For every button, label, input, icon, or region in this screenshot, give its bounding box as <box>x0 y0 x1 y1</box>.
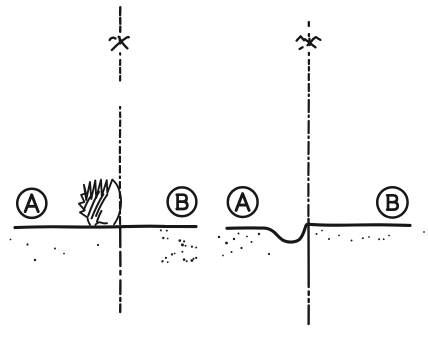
flame inner strokes <box>84 192 107 222</box>
centerline (left figure) below surface <box>119 227 122 312</box>
stipple dots below surface (right figure, left cluster) <box>218 233 270 257</box>
centerline (right figure) below surface <box>307 219 310 324</box>
beam cross marker (right figure) <box>297 36 321 49</box>
beam cross marker (left figure) <box>110 37 129 50</box>
label circle A (left figure) <box>17 189 46 218</box>
stipple dots below surface (left figure, sparse left side) <box>10 239 100 262</box>
centerline (right figure) dash-dot to surface <box>307 53 310 216</box>
stipple dots below surface (left figure, cluster right of centerline) <box>160 229 197 263</box>
centerline (left figure) dash-dot between marker and surface <box>119 53 121 224</box>
flame at beam spot (left figure) <box>79 180 121 225</box>
surface line (left figure) <box>15 226 196 227</box>
label circle B (right figure) <box>377 187 407 217</box>
label circle B (left figure) <box>168 187 197 216</box>
label circle A (right figure) <box>228 187 258 217</box>
centerline (right figure) top <box>308 22 310 36</box>
stipple dots below surface (right figure, right of centerline) <box>316 230 425 242</box>
centerline (left figure) top solid segment <box>119 7 122 32</box>
flame base squiggle <box>96 222 108 224</box>
surface line with depression (right figure) <box>227 224 410 242</box>
